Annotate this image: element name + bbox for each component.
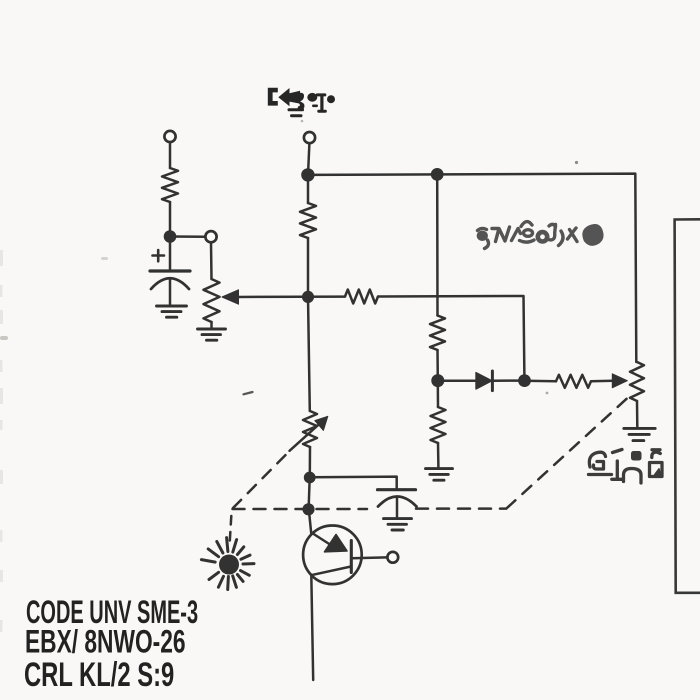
wire R2 to node B <box>307 238 310 297</box>
wire R3 to ground G2 <box>210 322 213 328</box>
node A junction dot <box>164 230 177 243</box>
rheostat R8 <box>303 411 317 447</box>
Q1 emitter line <box>313 567 351 575</box>
capacitor C1 polarized plates <box>150 269 190 272</box>
ground G2 <box>198 329 226 340</box>
Q1 collector line <box>311 533 330 545</box>
capacitor C2 stem <box>396 497 399 518</box>
wire R1 to node A <box>169 202 172 237</box>
potentiometer R3 <box>204 279 220 322</box>
load box outline <box>675 219 700 593</box>
resistor R6 <box>556 375 591 388</box>
ground G5 <box>624 428 655 440</box>
wire node E to node F <box>309 478 310 510</box>
wire node H to R6 <box>525 379 557 382</box>
dashed link right diagonal <box>507 393 634 509</box>
capacitor C2 curved plate <box>378 497 417 507</box>
wire node D to R5 <box>436 174 439 315</box>
transistor Q1 body circle <box>303 526 362 585</box>
ground G4 <box>426 469 453 481</box>
node D junction dot <box>431 168 444 181</box>
node G junction dot <box>431 374 444 387</box>
dashed link horizontal right <box>416 507 506 510</box>
terminal T2 (top-middle open circle) <box>304 132 315 143</box>
stray mark <box>244 392 253 394</box>
capacitor C1 plus sign <box>153 250 165 261</box>
node C junction dot <box>301 168 314 181</box>
wire node C to R2 <box>307 175 310 203</box>
wire node E to capacitor C2 <box>310 477 397 488</box>
potentiometer R9 <box>630 362 644 401</box>
terminal T4 (open circle) <box>387 552 398 563</box>
node B junction dot <box>302 291 314 303</box>
Q1 base lead <box>352 556 387 559</box>
annotation scribble top <box>268 88 335 117</box>
capacitor C2 plate <box>378 488 416 491</box>
resistor R4 <box>345 290 378 304</box>
wire R6 to R9 wiper arrow <box>591 380 613 383</box>
wire Q1 emitter down <box>311 575 313 681</box>
wire node G to diode D1 <box>438 379 476 382</box>
resistor R2 <box>300 203 316 238</box>
node F junction dot <box>302 503 314 515</box>
diode D1 <box>476 371 492 391</box>
wire R8 to node E <box>309 447 312 478</box>
wire node F to transistor Q1 <box>309 509 312 534</box>
dashed link to lamp <box>230 516 232 541</box>
Q1 arrow <box>325 535 348 552</box>
resistor R5 <box>430 316 445 351</box>
R3 wiper arrow head <box>222 290 239 304</box>
capacitor C1 curved plate <box>151 278 189 289</box>
wire node A down to capacitor C1 <box>169 237 172 271</box>
wire node B to rheostat R8 <box>308 297 310 411</box>
ground G1 <box>157 306 187 317</box>
wire node G to R7 <box>437 381 440 407</box>
ground G3 <box>384 519 412 530</box>
wire R4 to corner <box>378 296 524 377</box>
lamp LS1 starburst <box>201 538 254 590</box>
wire node A to terminal T3 <box>170 235 205 238</box>
wire T3 to potentiometer R3 <box>210 242 213 279</box>
capacitor C1 stem <box>169 279 172 306</box>
wire R5 to node G <box>436 350 439 381</box>
svg-text:CRL KL/2 S:9: CRL KL/2 S:9 <box>24 656 174 694</box>
terminal T1 (top-left open circle) <box>164 131 175 142</box>
wire top bus node C to right corner <box>308 174 636 362</box>
resistor R1 <box>162 168 178 202</box>
R8 adjustment arrow <box>290 424 320 451</box>
annotation scribble bottom-right <box>589 450 663 484</box>
node H junction dot <box>518 374 531 387</box>
wire T1 to R1 <box>169 142 172 168</box>
code text line 1 <box>24 594 198 694</box>
wire diode to node H <box>493 379 524 382</box>
Q1 base bar <box>350 541 353 573</box>
dashed link left diagonal <box>233 453 288 509</box>
annotation scribble right <box>477 222 603 249</box>
resistor R7 <box>431 407 446 443</box>
wire R9 to ground G5 <box>636 401 639 427</box>
svg-text:EBX/ 8NWO-26: EBX/ 8NWO-26 <box>25 624 186 660</box>
R8 arrow head <box>315 416 328 430</box>
specks <box>0 120 578 632</box>
R9 wiper arrow head <box>612 374 627 388</box>
wire T2 to node C <box>308 143 309 175</box>
node E junction dot <box>304 472 316 484</box>
wire R3 wiper to node B <box>237 295 345 298</box>
dashed link horizontal left <box>233 508 368 511</box>
wire R7 to ground G4 <box>437 443 440 467</box>
terminal T3 (open circle) <box>205 231 216 242</box>
